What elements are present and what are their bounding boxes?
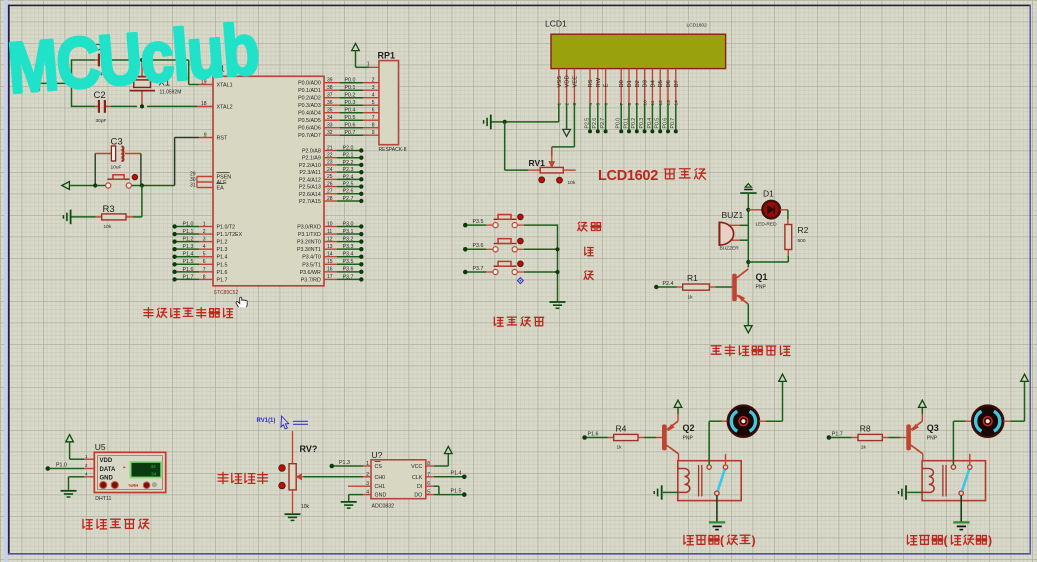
svg-text:RESPACK-8: RESPACK-8 xyxy=(379,147,407,153)
svg-text:34: 34 xyxy=(327,115,333,121)
svg-text:P1.5: P1.5 xyxy=(217,262,228,268)
svg-text:XTAL2: XTAL2 xyxy=(217,104,233,110)
annotation cursor blue xyxy=(281,416,289,429)
svg-text:32: 32 xyxy=(327,130,333,136)
sheet border top line xyxy=(8,4,1030,6)
wire net P0.2 (U1 to RP1) xyxy=(324,97,340,99)
indicator dot (reset button) xyxy=(132,174,137,179)
capacitor C1 xyxy=(95,59,98,61)
svg-text:33: 33 xyxy=(327,123,333,129)
svg-text:D5: D5 xyxy=(658,80,664,87)
wire net P0.3 (U1 to RP1) xyxy=(324,104,340,106)
pin names U? left xyxy=(375,464,387,499)
svg-text:C3: C3 xyxy=(111,137,123,148)
pin names U1 P1.x xyxy=(217,225,243,284)
pin VDD (LCD1) stub xyxy=(566,69,568,104)
svg-text:P0.3/AD3: P0.3/AD3 xyxy=(298,103,321,109)
U5 LCD screen xyxy=(130,461,163,478)
relay coil xyxy=(678,469,690,493)
svg-text:P3.7: P3.7 xyxy=(343,274,354,280)
wire XTAL bottom net (C2/crystal to XTAL2) xyxy=(72,105,96,107)
wire net P2.2 xyxy=(324,164,337,166)
wire net P1.0 (left) xyxy=(177,226,200,228)
wire motor to relay contact xyxy=(952,421,954,465)
svg-text:RST: RST xyxy=(217,136,228,142)
svg-text:P2.3/A11: P2.3/A11 xyxy=(299,170,320,176)
junction reset right xyxy=(140,183,144,187)
svg-text:R1: R1 xyxy=(687,273,698,283)
svg-text:13: 13 xyxy=(666,100,672,106)
relay body (Q3 channel) xyxy=(922,461,985,501)
svg-text:1: 1 xyxy=(557,103,563,106)
svg-text:P3.2/INT0: P3.2/INT0 xyxy=(297,240,321,246)
svg-text:P3.5: P3.5 xyxy=(343,259,354,265)
wire net P0.6 (LCD1) xyxy=(667,104,669,131)
wire net P3.1 xyxy=(324,233,337,235)
wire VSS to ground xyxy=(558,104,560,122)
resistor R4 xyxy=(614,434,638,440)
relay core xyxy=(942,465,944,497)
sheet border right line xyxy=(1029,5,1031,554)
relay core xyxy=(698,465,700,497)
wire net P2.4 xyxy=(324,178,337,180)
svg-text:P2.5: P2.5 xyxy=(584,118,590,129)
svg-text:P1.7: P1.7 xyxy=(183,274,194,280)
LED D1 xyxy=(748,209,762,211)
relay NC stub xyxy=(969,454,971,465)
ground arrow (Q1 emitter) xyxy=(745,326,753,333)
svg-text:DHT11: DHT11 xyxy=(95,496,111,502)
wire U? VCC to power xyxy=(426,465,434,467)
indicator dot (P3.7 button) xyxy=(518,261,524,267)
ground (relay common) xyxy=(709,521,725,523)
pin D0 (LCD1) stub xyxy=(620,69,622,104)
wire reset row xyxy=(69,185,105,187)
ground (RV?) xyxy=(285,513,301,515)
power arrow (Q3) xyxy=(919,400,927,407)
pin VEE (LCD1) stub xyxy=(573,69,575,104)
wire Q1 emitter to ground arrow xyxy=(747,304,749,325)
svg-text:VCC: VCC xyxy=(411,464,422,470)
svg-text:P1.2: P1.2 xyxy=(183,237,194,243)
push-button (P3.5) xyxy=(493,223,498,228)
wire net P3.7 xyxy=(324,278,337,280)
wire net P1.0 (U5 DATA) xyxy=(46,466,51,471)
pin RW (LCD1) stub xyxy=(597,69,599,104)
ground (relay common) xyxy=(953,521,969,523)
wire left vertical joining C1/C2 xyxy=(71,59,73,107)
junction crystal bottom xyxy=(140,104,144,108)
wire net P3.5 xyxy=(324,263,337,265)
svg-text:P1.7: P1.7 xyxy=(217,277,228,283)
svg-text:CLK: CLK xyxy=(412,475,423,481)
svg-text:P1.0: P1.0 xyxy=(183,221,194,227)
svg-text:P1.1/T2EX: P1.1/T2EX xyxy=(217,232,243,238)
wire RV? wiper to U? CH0 xyxy=(304,476,364,478)
svg-text:2: 2 xyxy=(372,78,375,84)
wire to ground from caps xyxy=(40,82,72,84)
caption independent keys (chinese) xyxy=(494,317,543,326)
svg-text:9: 9 xyxy=(635,103,641,106)
svg-text:38: 38 xyxy=(327,85,333,91)
svg-text:10uF: 10uF xyxy=(111,165,122,171)
svg-text:LCD1602: LCD1602 xyxy=(687,23,708,29)
svg-text:5: 5 xyxy=(372,100,375,106)
svg-text:31: 31 xyxy=(190,183,196,189)
svg-text:P3.3/INT1: P3.3/INT1 xyxy=(297,247,321,253)
svg-text:26: 26 xyxy=(327,181,333,187)
wire VSS-net down to RV1 left xyxy=(504,122,506,170)
wire Q2 emitter to power xyxy=(677,414,679,421)
svg-text:Q2: Q2 xyxy=(683,423,695,433)
wire net P3.6 xyxy=(324,271,337,273)
wire net P1.4 (left) xyxy=(177,256,200,258)
wire net P3.3 xyxy=(324,248,337,250)
relay blade (cyan) xyxy=(718,470,725,491)
wire net P2.7 xyxy=(324,200,337,202)
svg-text:14: 14 xyxy=(327,252,333,258)
svg-text:6: 6 xyxy=(203,259,206,265)
svg-text:10: 10 xyxy=(642,100,648,106)
junction keys common (P3.6) xyxy=(555,247,559,251)
wire net P0.4 (LCD1) xyxy=(651,104,653,131)
svg-text:P3.6: P3.6 xyxy=(343,267,354,273)
resistor R1 xyxy=(677,286,683,288)
pin names U1 P3.x xyxy=(297,225,321,284)
svg-text:22: 22 xyxy=(327,153,333,159)
capacitor C3 (electrolytic) xyxy=(95,153,111,155)
ground (crystal caps) xyxy=(38,76,40,91)
wire C3 right leg down xyxy=(140,154,142,186)
svg-text:P3.6: P3.6 xyxy=(473,243,484,249)
power arrow (motor Q3) xyxy=(1021,374,1029,381)
relay blade (cyan) xyxy=(962,470,969,491)
svg-text:P2.5: P2.5 xyxy=(343,181,354,187)
svg-text:GND: GND xyxy=(375,493,387,499)
svg-text:10k: 10k xyxy=(568,180,576,186)
pin VSS (LCD1) stub xyxy=(558,69,560,104)
svg-text:P0.7: P0.7 xyxy=(345,130,356,136)
wire VEE to RV1 wiper xyxy=(573,104,575,147)
svg-text:P3.4: P3.4 xyxy=(343,252,354,258)
svg-text:CH1: CH1 xyxy=(375,484,386,490)
svg-text:P3.5: P3.5 xyxy=(473,219,484,225)
svg-text:P1.6: P1.6 xyxy=(217,270,228,276)
svg-text:P2.7/A15: P2.7/A15 xyxy=(299,199,321,205)
svg-text:VEE: VEE xyxy=(572,76,578,88)
svg-text:P2.5/A13: P2.5/A13 xyxy=(299,185,321,191)
svg-text:P1.7: P1.7 xyxy=(832,431,843,437)
svg-text:P0.7/AD7: P0.7/AD7 xyxy=(298,133,321,139)
svg-text:P3.6/WR: P3.6/WR xyxy=(300,270,321,276)
wire XTAL top net (C1/crystal to XTAL1) xyxy=(72,59,96,61)
svg-text:P1.5: P1.5 xyxy=(183,259,194,265)
svg-text:D6: D6 xyxy=(666,80,672,87)
sheet border dark left line xyxy=(8,5,10,555)
transistor Q1 PNP xyxy=(732,274,737,302)
blue marker (origin) xyxy=(518,278,524,284)
wire Q3 collector to relay xyxy=(922,454,924,461)
push-button (P3.7) xyxy=(493,269,498,274)
U5 LEDs xyxy=(100,482,107,489)
svg-text:P1.3: P1.3 xyxy=(217,247,228,253)
resistor R8 xyxy=(858,434,882,440)
wire relay common to ground xyxy=(716,495,718,521)
svg-text:7: 7 xyxy=(203,267,206,273)
pin names U1 P0.x xyxy=(298,81,321,140)
wire net P2.6 xyxy=(324,193,337,195)
wire Q3 emitter to power xyxy=(921,414,923,421)
svg-text:D2: D2 xyxy=(635,80,641,87)
ground (R3) xyxy=(70,210,72,225)
capacitor C2 xyxy=(95,105,98,107)
svg-text:9: 9 xyxy=(204,132,207,138)
svg-text:P2.2: P2.2 xyxy=(343,160,354,166)
svg-text:4: 4 xyxy=(203,244,206,250)
ground (relay coil) xyxy=(907,491,922,493)
wire net P1.7 (left) xyxy=(177,278,200,280)
wire U? GND xyxy=(363,494,371,496)
junction caps-left xyxy=(69,81,73,85)
wire net P2.1 xyxy=(324,157,337,159)
sheet border left light band xyxy=(4,0,8,562)
wire U5 GND xyxy=(69,476,85,478)
svg-text:P0.4: P0.4 xyxy=(345,108,356,114)
junction keys common (P3.7) xyxy=(555,270,559,274)
svg-text:R8: R8 xyxy=(860,423,871,433)
svg-text:18: 18 xyxy=(201,101,207,107)
svg-text:P0.5: P0.5 xyxy=(655,118,661,129)
svg-text:8: 8 xyxy=(627,103,633,106)
caption PLUS (chinese) xyxy=(585,247,593,256)
svg-text:BUZ1: BUZ1 xyxy=(722,210,744,220)
svg-text:P2.1: P2.1 xyxy=(343,153,354,159)
svg-text:34: 34 xyxy=(151,464,157,469)
svg-text:39: 39 xyxy=(327,78,333,84)
svg-text:3: 3 xyxy=(203,237,206,243)
svg-text:1k: 1k xyxy=(617,444,623,450)
ground (keys) xyxy=(550,301,566,303)
svg-text:P1.5: P1.5 xyxy=(451,488,462,494)
caption relay purifier (chinese) xyxy=(907,535,942,545)
wire net P0.0 (U1 to RP1) xyxy=(324,82,340,84)
ground (relay coil) xyxy=(663,491,678,493)
wire alarm VCC vertical xyxy=(747,193,749,267)
svg-text:P0.3: P0.3 xyxy=(639,118,645,129)
wire net P2.5 (LCD1) xyxy=(589,104,591,131)
svg-text:34: 34 xyxy=(151,471,157,476)
svg-text:EA: EA xyxy=(217,186,225,192)
svg-text:D1: D1 xyxy=(627,80,633,87)
svg-text:P3.1: P3.1 xyxy=(343,229,354,235)
svg-text:D3: D3 xyxy=(643,80,649,87)
wire net P1.2 (left) xyxy=(177,241,200,243)
wire P3.6 to common xyxy=(517,248,524,250)
pin D1 (LCD1) stub xyxy=(628,69,630,104)
svg-text:P2.6: P2.6 xyxy=(592,118,598,129)
wire net P0.7 (LCD1) xyxy=(675,104,677,131)
power arrow (Q2) xyxy=(674,400,682,407)
svg-text:CH0: CH0 xyxy=(375,475,386,481)
svg-text:VSS: VSS xyxy=(557,76,563,88)
svg-text:P2.0/A8: P2.0/A8 xyxy=(302,149,321,155)
svg-text:P1.6: P1.6 xyxy=(588,431,599,437)
sheet border bottom line xyxy=(8,553,1031,555)
wire net P1.5 (U? DO) xyxy=(426,494,434,496)
svg-text:P2.6/A14: P2.6/A14 xyxy=(299,192,321,198)
caption threshold adjust (chinese) xyxy=(218,472,267,483)
buzzer BUZ1 xyxy=(730,224,741,226)
svg-text:P0.4/AD4: P0.4/AD4 xyxy=(298,111,321,117)
svg-text:P0.7: P0.7 xyxy=(670,118,676,129)
indicator dots RV1 xyxy=(539,177,545,183)
wire net P3.2 xyxy=(324,241,337,243)
wire net P3.0 xyxy=(324,226,337,228)
wire RP1 pin 1 xyxy=(355,51,357,68)
wire net P0.7 (U1 to RP1) xyxy=(324,134,340,136)
svg-text:U?: U? xyxy=(372,450,383,460)
ground (U5) xyxy=(61,490,77,492)
svg-text:9: 9 xyxy=(372,130,375,136)
svg-text:RV?: RV? xyxy=(300,444,318,454)
svg-text:RS: RS xyxy=(588,79,594,87)
power arrow (motor Q2) xyxy=(779,374,787,381)
svg-text:P2.6: P2.6 xyxy=(343,189,354,195)
wire net P1.7 xyxy=(827,435,832,440)
svg-text:P0.4: P0.4 xyxy=(647,118,653,129)
svg-text:LED-RED: LED-RED xyxy=(756,222,778,228)
caption temperature-humidity module (chinese) xyxy=(83,519,149,529)
svg-text:P2.2/A10: P2.2/A10 xyxy=(299,163,321,169)
svg-text:10: 10 xyxy=(327,221,333,227)
power down arrow (LCD VDD) xyxy=(566,104,568,130)
svg-text:P1.3: P1.3 xyxy=(339,460,350,466)
svg-text:): ) xyxy=(752,534,756,548)
push-button (P3.6) xyxy=(493,247,498,252)
svg-text:28: 28 xyxy=(327,196,333,202)
wire net P0.2 (LCD1) xyxy=(636,104,638,131)
svg-text:DATA: DATA xyxy=(100,467,116,473)
svg-text:8: 8 xyxy=(372,123,375,129)
svg-text:10k: 10k xyxy=(301,504,310,510)
wire net P2.4 xyxy=(658,286,677,288)
svg-text:U5: U5 xyxy=(95,442,106,452)
svg-text:P3.1/TXD: P3.1/TXD xyxy=(298,232,321,238)
wire net P1.6 (left) xyxy=(177,271,200,273)
wire net P0.5 (LCD1) xyxy=(659,104,661,131)
relay coil xyxy=(922,469,934,493)
svg-text:P3.4/T0: P3.4/T0 xyxy=(302,255,321,261)
svg-text:12: 12 xyxy=(658,100,664,106)
svg-text:12: 12 xyxy=(327,236,333,242)
caption sound-light alarm (chinese) xyxy=(711,345,790,356)
svg-text:30pF: 30pF xyxy=(96,118,107,124)
pin stub U? CH1 xyxy=(348,485,371,487)
wire net P1.1 (left) xyxy=(177,233,200,235)
svg-text:P3.0: P3.0 xyxy=(343,221,354,227)
svg-text:14: 14 xyxy=(674,100,680,106)
svg-text:3: 3 xyxy=(572,103,578,106)
svg-text:PNP: PNP xyxy=(683,436,694,442)
RV? wiper xyxy=(297,474,302,479)
wire net P0.6 (U1 to RP1) xyxy=(324,127,340,129)
svg-text:P0.0/AD0: P0.0/AD0 xyxy=(298,81,321,87)
potentiometer RV? xyxy=(292,431,294,464)
pin names U? right xyxy=(411,464,423,499)
svg-text:STC89C52: STC89C52 xyxy=(214,290,239,296)
pin names U1 left (XTAL1 XTAL2 RST) xyxy=(217,83,233,142)
svg-text:P0.6: P0.6 xyxy=(662,118,668,129)
svg-text:5: 5 xyxy=(596,103,602,106)
svg-text:P3.5/T1: P3.5/T1 xyxy=(302,262,321,268)
caption MCU minimal system (chinese) xyxy=(144,308,233,318)
svg-text:37: 37 xyxy=(327,93,333,99)
svg-text:P2.4: P2.4 xyxy=(663,281,674,287)
wire motor to relay contact xyxy=(708,421,710,465)
wire net P1.4 (U? CLK) xyxy=(426,476,434,478)
svg-text:P0.2: P0.2 xyxy=(345,93,356,99)
caption SET (chinese) xyxy=(578,222,601,231)
wire net P3.4 xyxy=(324,256,337,258)
key row net P3.7 xyxy=(463,270,468,275)
pin D6 (LCD1) stub xyxy=(667,69,669,104)
svg-text:ADC0832: ADC0832 xyxy=(372,504,395,510)
wire net P2.7 (LCD1) xyxy=(605,104,607,131)
svg-text:E: E xyxy=(604,84,610,88)
wire U5 VDD xyxy=(69,442,71,459)
svg-text:D4: D4 xyxy=(650,79,656,87)
svg-text:P0.1: P0.1 xyxy=(345,85,356,91)
svg-text:P3.2: P3.2 xyxy=(343,237,354,243)
wire net P0.4 (U1 to RP1) xyxy=(324,112,340,114)
svg-text:RW: RW xyxy=(596,77,602,87)
svg-text:1: 1 xyxy=(203,221,206,227)
power arrow (U5 VDD) xyxy=(66,435,74,442)
junction D1 anode xyxy=(746,208,750,212)
LCD1 display body xyxy=(551,34,726,68)
svg-text:P3.0/RXD: P3.0/RXD xyxy=(297,225,321,231)
svg-text:R4: R4 xyxy=(616,423,627,433)
pin names PSEN ALE EA xyxy=(217,175,232,192)
svg-text:36: 36 xyxy=(327,100,333,106)
push-button (reset) xyxy=(106,183,111,188)
svg-text:P0.3: P0.3 xyxy=(345,100,356,106)
power arrow (reset, pointing left) xyxy=(62,182,70,190)
wire motor to power xyxy=(759,420,766,422)
pin numbers U? left 1-4 xyxy=(366,461,369,496)
svg-text:P2.4: P2.4 xyxy=(343,174,354,180)
svg-text:P1.1: P1.1 xyxy=(183,229,194,235)
key row net P3.5 xyxy=(463,223,468,228)
transistor Q2 PNP xyxy=(662,424,667,450)
svg-text:P0.2: P0.2 xyxy=(631,118,637,129)
wire net P2.5 xyxy=(324,186,337,188)
pin D7 (LCD1) stub xyxy=(675,69,677,104)
crystal X1 xyxy=(141,60,143,76)
svg-text:P1.3: P1.3 xyxy=(183,244,194,250)
potentiometer RV1 xyxy=(540,167,563,173)
svg-text:P0.5/AD5: P0.5/AD5 xyxy=(298,118,321,124)
svg-text:P1.4: P1.4 xyxy=(217,255,228,261)
svg-text:500: 500 xyxy=(798,238,806,244)
svg-text:8: 8 xyxy=(203,274,206,280)
relay body (Q2 channel) xyxy=(678,461,741,501)
caption relay fan (chinese) xyxy=(684,535,719,545)
svg-text:P2.3: P2.3 xyxy=(343,167,354,173)
svg-text:P1.0/T2: P1.0/T2 xyxy=(217,225,236,231)
pins PSEN ALE EA stubs xyxy=(197,176,213,178)
wire D1 cathode to R2 xyxy=(780,209,788,211)
